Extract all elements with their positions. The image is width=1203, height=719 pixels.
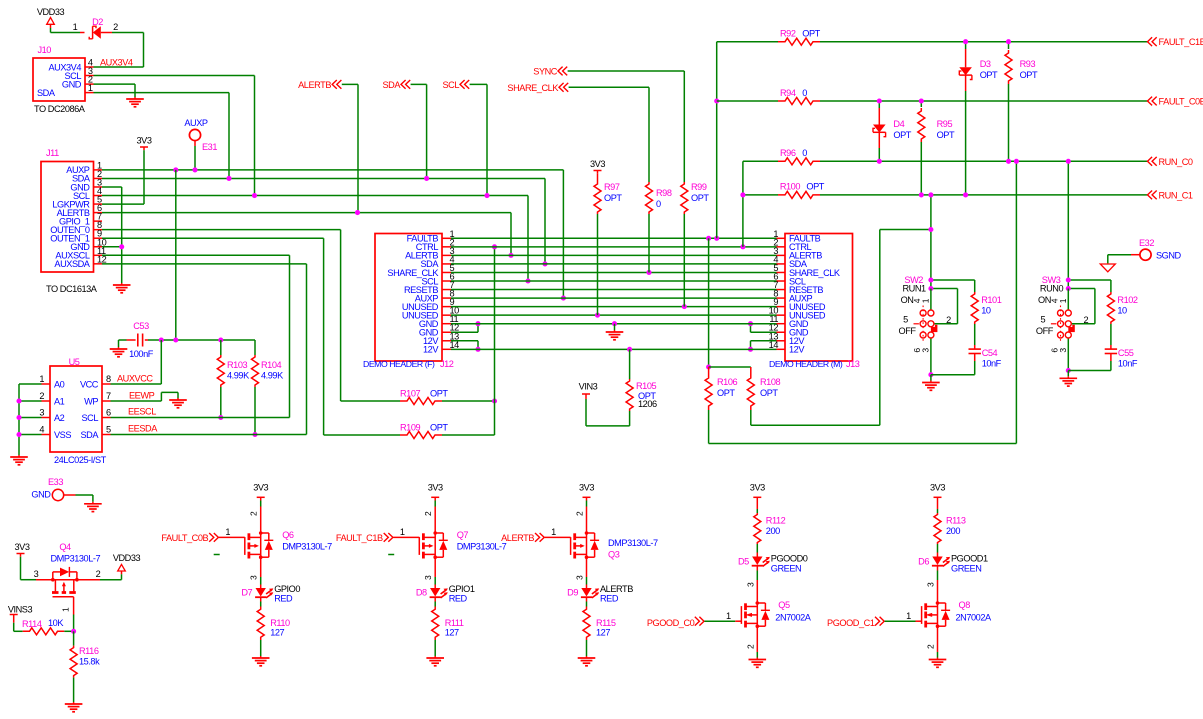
svg-text:OPT: OPT — [937, 130, 955, 140]
wire R92 left vertical to FAULTB — [716, 42, 718, 239]
svg-text:R99: R99 — [691, 182, 707, 192]
svg-text:PGOOD1: PGOOD1 — [951, 554, 988, 564]
svg-text:1: 1 — [921, 298, 931, 303]
svg-text:1: 1 — [61, 607, 71, 612]
wire SYNC to R99 — [568, 70, 685, 72]
ground Q5 — [756, 658, 758, 660]
svg-text:SCL: SCL — [442, 80, 459, 90]
switch SW2 — [920, 310, 926, 316]
resistor R111 — [434, 597, 436, 601]
junction J12 jogs — [475, 321, 480, 326]
wire RUN1 node jogs — [931, 279, 975, 281]
svg-text:SYNC: SYNC — [533, 67, 558, 77]
diode D4 — [878, 101, 880, 108]
wire bus row 7 RESETB — [451, 289, 777, 291]
wire U5 address pins to ground — [19, 383, 42, 385]
junction R93 — [1006, 39, 1011, 44]
svg-text:C53: C53 — [133, 321, 149, 331]
ground J10 — [134, 97, 136, 99]
wire R106 to RUN_C0 — [709, 443, 1017, 445]
ground R116 — [73, 702, 75, 704]
resistor R97 — [597, 174, 599, 182]
svg-text:OFF: OFF — [899, 326, 917, 336]
wire E33 to ground — [64, 494, 76, 496]
svg-text:DMP3130L-7: DMP3130L-7 — [457, 542, 507, 552]
wire SDA row — [102, 177, 545, 179]
wire 3V3 to Q6 — [260, 501, 262, 507]
wire AUXP to C53 node — [175, 170, 177, 340]
svg-text:C55: C55 — [1118, 348, 1134, 358]
svg-text:0: 0 — [656, 199, 661, 209]
svg-text:PGOOD0: PGOOD0 — [771, 554, 808, 564]
ground SGND triangle — [1100, 264, 1115, 272]
resistor R104 — [254, 340, 256, 355]
svg-text:3V3: 3V3 — [137, 136, 152, 146]
wire J10 SDA net — [94, 92, 230, 94]
ground Q8 — [937, 658, 939, 660]
svg-text:Q5: Q5 — [778, 600, 790, 610]
svg-text:VCC: VCC — [80, 379, 99, 389]
resistor R98 — [646, 182, 653, 214]
svg-text:R108: R108 — [760, 377, 781, 387]
svg-text:D6: D6 — [918, 557, 929, 567]
svg-text:SGND: SGND — [1156, 251, 1182, 261]
svg-text:2: 2 — [575, 511, 585, 516]
net flag RUN_C1 — [1148, 191, 1153, 200]
wire EEWP — [111, 400, 162, 402]
wire Q4 drain to VDD33 — [100, 579, 122, 581]
wire AUXVCC — [111, 383, 162, 385]
junction SDA row — [226, 176, 231, 181]
svg-text:OPT: OPT — [691, 193, 709, 203]
resistor R110 — [260, 597, 262, 601]
resistor R109 — [400, 432, 442, 439]
wire J11 GND pins to ground — [102, 186, 122, 188]
resistor R101 — [974, 280, 976, 292]
wire J13 pin13 jog — [751, 340, 777, 342]
wire bus row 10 UNUSED — [451, 314, 777, 316]
svg-text:1206: 1206 — [638, 399, 657, 409]
svg-text:1: 1 — [1058, 298, 1068, 303]
wire R105 to VIN3 — [629, 411, 631, 426]
svg-text:AUXP: AUXP — [184, 118, 208, 128]
junction R104 — [252, 432, 257, 437]
wire Q3 to D9 — [586, 559, 588, 578]
wire J12 pin12 jog — [451, 331, 478, 333]
wire AUXSDA to EESDA — [102, 263, 307, 265]
svg-text:1: 1 — [726, 611, 731, 621]
svg-text:1: 1 — [551, 527, 556, 537]
resistor R94 — [778, 98, 820, 105]
junction U5 address bus — [16, 398, 21, 403]
svg-text:SDA: SDA — [382, 80, 401, 90]
svg-text:D8: D8 — [416, 588, 427, 598]
svg-text:1: 1 — [39, 374, 44, 384]
wire 3V3 to LGKPWR — [143, 150, 145, 204]
svg-text:3: 3 — [249, 575, 259, 580]
wire Q6 to D7 — [260, 559, 262, 578]
resistor R99 — [681, 182, 688, 214]
wire Q5 to ground — [756, 629, 758, 653]
svg-text:J10: J10 — [38, 45, 52, 55]
svg-text:7: 7 — [106, 391, 111, 401]
svg-text:OFF: OFF — [1036, 326, 1054, 336]
svg-text:3V3: 3V3 — [930, 483, 945, 493]
wire RUN_C0 row — [743, 160, 778, 162]
svg-text:R114: R114 — [22, 619, 42, 629]
wire J10 GND to ground — [94, 83, 136, 85]
svg-text:DMP3130L-7: DMP3130L-7 — [51, 554, 101, 564]
svg-text:10: 10 — [981, 306, 991, 316]
led D7 — [256, 588, 266, 597]
svg-text:E31: E31 — [202, 142, 217, 152]
ground U5 — [18, 455, 20, 457]
wire SCL row — [102, 195, 528, 197]
wire C55 to ground — [1110, 361, 1112, 371]
svg-text:5: 5 — [903, 314, 908, 324]
junction SW3 ground — [1066, 368, 1071, 373]
svg-text:2: 2 — [113, 22, 118, 32]
svg-text:4.99K: 4.99K — [227, 371, 250, 381]
svg-text:VINS3: VINS3 — [8, 605, 33, 615]
svg-text:PGOOD_C1: PGOOD_C1 — [827, 618, 875, 628]
svg-text:2: 2 — [96, 569, 101, 579]
svg-text:VDD33: VDD33 — [113, 553, 141, 563]
ic U5 24LC025 — [50, 366, 102, 452]
svg-text:Q7: Q7 — [457, 530, 469, 540]
svg-text:RUN1: RUN1 — [903, 284, 927, 294]
svg-text:RED: RED — [449, 594, 468, 604]
svg-text:TO DC2086A: TO DC2086A — [34, 104, 86, 114]
net flag RUN_C0 — [1148, 157, 1153, 166]
wire D2 to J10 pin4 — [112, 32, 144, 34]
wire RUN_C1 to SW2 — [930, 195, 932, 289]
resistor R105 — [626, 379, 633, 411]
wire bus row 4 SDA — [451, 263, 777, 265]
svg-text:D2: D2 — [92, 17, 103, 27]
wire ALERTB flag to J11 — [342, 83, 358, 85]
svg-text:R112: R112 — [766, 516, 786, 526]
wire FAULT_C1B row — [717, 41, 778, 43]
svg-text:WP: WP — [84, 396, 98, 406]
svg-text:200: 200 — [766, 526, 780, 536]
svg-text:FAULT_C0B: FAULT_C0B — [161, 533, 208, 543]
ground bus GND row — [614, 324, 616, 330]
wire bus row 9 UNUSED — [451, 306, 777, 308]
junction RUN_C0 drop — [1014, 159, 1019, 164]
svg-text:OPT: OPT — [430, 423, 448, 433]
svg-text:R98: R98 — [656, 188, 672, 198]
wire J12 pin13 jog — [451, 340, 478, 342]
wire AUXSCL to EESCL — [102, 254, 290, 256]
wire OUTEN_1 to R109 — [102, 237, 324, 239]
resistor R112 — [756, 501, 758, 510]
wire R108 to SW2 node — [751, 424, 880, 426]
ground E33 — [92, 502, 94, 504]
svg-text:OPT: OPT — [717, 388, 735, 398]
svg-text:GND: GND — [62, 79, 82, 89]
wire C53 node — [148, 339, 255, 341]
svg-text:J11: J11 — [46, 148, 59, 158]
svg-text:2N7002A: 2N7002A — [956, 613, 992, 623]
ground R110 — [260, 656, 262, 658]
wire bus row 3 ALERTB — [451, 254, 777, 256]
wire bus row 14 12V — [451, 348, 777, 350]
svg-text:R102: R102 — [1117, 295, 1138, 305]
svg-text:SHARE_CLK: SHARE_CLK — [507, 83, 559, 93]
svg-text:200: 200 — [946, 526, 960, 536]
wire D3 to RUN_C1 — [965, 91, 967, 195]
svg-text:OPT: OPT — [802, 29, 820, 39]
svg-text:Q8: Q8 — [959, 600, 971, 610]
switch SW3 — [1058, 310, 1064, 316]
svg-text:D9: D9 — [567, 588, 578, 598]
svg-text:RED: RED — [274, 594, 293, 604]
svg-text:R95: R95 — [937, 119, 953, 129]
svg-text:GREEN: GREEN — [771, 564, 801, 574]
svg-text:ALERTB: ALERTB — [600, 584, 633, 594]
svg-text:4.99K: 4.99K — [261, 371, 284, 381]
resistor R116 — [73, 631, 75, 645]
svg-text:3V3: 3V3 — [579, 483, 594, 493]
wire SHARE_CLK to R98 — [569, 86, 649, 88]
wire J13 pin12 jog — [751, 331, 777, 333]
wire C53 to ground — [119, 339, 127, 341]
wire bus row 5 SHARE_CLK — [451, 271, 777, 273]
wire Q7 to D8 — [434, 559, 436, 578]
svg-text:2N7002A: 2N7002A — [775, 613, 811, 623]
svg-text:2: 2 — [1084, 315, 1089, 325]
svg-text:OPT: OPT — [806, 182, 824, 192]
junction bus row1 — [706, 236, 711, 241]
svg-text:GREEN: GREEN — [951, 564, 981, 574]
junction SW2 node — [928, 277, 933, 282]
transistor Q3 DMP3130L-7 — [586, 507, 588, 532]
svg-text:2: 2 — [423, 511, 433, 516]
wire bus row 11 GND — [451, 323, 777, 325]
wire EESCL — [111, 417, 290, 419]
wire R109 to CTRL vertical — [442, 434, 495, 436]
svg-text:TO DC1613A: TO DC1613A — [46, 284, 98, 294]
svg-text:127: 127 — [270, 628, 284, 638]
svg-text:3: 3 — [926, 582, 936, 587]
ground SW3 — [1067, 371, 1069, 377]
svg-text:3V3: 3V3 — [15, 542, 30, 552]
svg-text:R104: R104 — [261, 360, 282, 370]
ground R111 — [434, 656, 436, 658]
wire R96 R100 vertical to CTRL — [742, 161, 744, 247]
svg-text:10: 10 — [1117, 306, 1127, 316]
svg-text:0: 0 — [802, 148, 807, 158]
svg-text:R115: R115 — [596, 618, 616, 628]
svg-text:3: 3 — [39, 408, 44, 418]
wire EESDA — [111, 434, 307, 436]
wire bus row 2 CTRL — [451, 246, 777, 248]
svg-text:EESDA: EESDA — [128, 424, 158, 434]
svg-text:24LC025-I/ST: 24LC025-I/ST — [54, 455, 107, 465]
svg-text:8: 8 — [106, 374, 111, 384]
svg-text:12V: 12V — [423, 345, 439, 355]
svg-text:3: 3 — [921, 348, 931, 353]
junction bus row5 — [646, 270, 651, 275]
svg-text:AUXSDA: AUXSDA — [54, 259, 90, 269]
svg-text:E33: E33 — [48, 477, 63, 487]
wire FAULT_C0B row — [717, 100, 778, 102]
resistor R102 — [1110, 280, 1112, 292]
svg-text:3V3: 3V3 — [428, 483, 443, 493]
svg-text:AUX3V4: AUX3V4 — [100, 58, 133, 68]
svg-text:R111: R111 — [445, 618, 464, 628]
svg-text:OPT: OPT — [604, 193, 622, 203]
svg-text:FAULT_C1B: FAULT_C1B — [336, 533, 383, 543]
wire 12V row to R105 — [629, 349, 631, 379]
svg-text:Q4: Q4 — [59, 542, 71, 552]
transistor Q6 DMP3130L-7 — [260, 507, 262, 532]
svg-text:OPT: OPT — [760, 388, 778, 398]
wire bus row 6 SCL — [451, 280, 777, 282]
ground SW2 — [930, 375, 932, 381]
svg-text:OPT: OPT — [1020, 70, 1038, 80]
wire FAULTB to R106 node — [708, 238, 710, 367]
junction J11 GND — [119, 244, 124, 249]
svg-text:1: 1 — [88, 83, 93, 93]
wire 3V3 to Q7 — [434, 501, 436, 507]
junction bus row14 — [627, 347, 632, 352]
svg-text:100nF: 100nF — [129, 349, 154, 359]
svg-text:2: 2 — [249, 511, 259, 516]
svg-text:10nF: 10nF — [982, 359, 1002, 369]
junction R114 node — [71, 629, 76, 634]
junction R106 node — [706, 364, 711, 369]
resistor R96 — [778, 158, 820, 165]
svg-text:2: 2 — [745, 644, 755, 649]
svg-text:AUXVCC: AUXVCC — [117, 374, 153, 384]
wire VINS3 to R114 — [13, 623, 15, 632]
junction SW2 column — [928, 192, 933, 197]
junction bus row2 — [740, 244, 745, 249]
svg-text:127: 127 — [445, 628, 459, 638]
junction SW3 node — [1066, 277, 1071, 282]
svg-text:RUN_C1: RUN_C1 — [1159, 190, 1193, 200]
svg-text:10K: 10K — [48, 618, 64, 628]
wire R114 to node — [64, 630, 73, 632]
transistor Q8 2N7002A — [937, 602, 939, 629]
svg-text:R97: R97 — [604, 182, 620, 192]
svg-text:5: 5 — [1041, 314, 1046, 324]
svg-text:Q3: Q3 — [608, 550, 620, 560]
junction SW3 column — [1066, 159, 1071, 164]
ground J11 — [121, 283, 123, 285]
resistor R95 — [920, 101, 922, 107]
wire Q8 to ground — [937, 629, 939, 653]
wire SW3 pin3 to ground — [1067, 338, 1069, 371]
wire OUTEN_0 to R107 — [102, 229, 341, 231]
resistor R103 — [220, 340, 222, 355]
led D8 — [430, 588, 440, 597]
resistor R114 — [23, 628, 65, 635]
transistor Q5 2N7002A — [756, 602, 758, 629]
junction D3 — [963, 39, 968, 44]
svg-text:D4: D4 — [893, 119, 904, 129]
junction R107 — [492, 398, 497, 403]
wire ALERTB row — [102, 212, 511, 214]
svg-text:R116: R116 — [79, 646, 99, 656]
net flag FAULT_C0B — [1148, 97, 1153, 106]
svg-text:J12: J12 — [440, 359, 454, 369]
svg-text:R109: R109 — [400, 423, 421, 433]
svg-text:1: 1 — [225, 527, 230, 537]
wire stub Q6 — [214, 554, 220, 556]
wire Q4 gate to R114 node — [73, 615, 75, 632]
svg-text:SCL: SCL — [81, 413, 98, 423]
svg-text:4: 4 — [39, 425, 44, 435]
wire SW2 pin1 — [930, 289, 932, 311]
svg-text:1: 1 — [906, 611, 911, 621]
svg-text:ALERTB: ALERTB — [501, 533, 534, 543]
wire SCL flag to J11 — [470, 83, 487, 85]
svg-text:E32: E32 — [1139, 238, 1154, 248]
svg-text:A1: A1 — [54, 396, 65, 406]
junction R103 — [218, 415, 223, 420]
wire bus row 1 FAULTB — [451, 237, 777, 239]
ground C53 — [118, 347, 120, 349]
svg-text:SDA: SDA — [80, 430, 99, 440]
svg-text:0: 0 — [802, 88, 807, 98]
wire bus row 8 AUXP — [451, 297, 777, 299]
svg-text:3V3: 3V3 — [590, 159, 605, 169]
junction bus row9 — [682, 304, 687, 309]
svg-text:OPT: OPT — [893, 130, 911, 140]
resistor R115 — [586, 597, 588, 601]
wire stub Q7 — [388, 554, 394, 556]
svg-text:3: 3 — [575, 575, 585, 580]
svg-text:GPIO0: GPIO0 — [274, 584, 300, 594]
wire SW2 pin3 to ground — [930, 338, 932, 375]
svg-text:3: 3 — [34, 569, 39, 579]
led D5 — [756, 544, 758, 553]
svg-text:6: 6 — [106, 408, 111, 418]
svg-text:1: 1 — [400, 527, 405, 537]
transistor Q7 DMP3130L-7 — [434, 507, 436, 532]
svg-text:3: 3 — [423, 575, 433, 580]
svg-text:R113: R113 — [946, 516, 966, 526]
junction R94 tap — [714, 98, 719, 103]
svg-text:OPT: OPT — [980, 70, 998, 80]
junction C53 node — [173, 337, 178, 342]
svg-text:15.8k: 15.8k — [79, 657, 100, 667]
wire D6 to Q8 — [937, 566, 939, 571]
svg-text:VDD33: VDD33 — [37, 7, 65, 17]
svg-text:EEWP: EEWP — [129, 391, 155, 401]
svg-text:RUN0: RUN0 — [1040, 284, 1064, 294]
svg-text:U5: U5 — [69, 357, 80, 367]
svg-text:DMP3130L-7: DMP3130L-7 — [282, 542, 332, 552]
capacitor C54 — [974, 345, 976, 349]
svg-text:A2: A2 — [54, 413, 65, 423]
wire E31 to AUXP — [194, 141, 196, 146]
svg-text:3: 3 — [1058, 348, 1068, 353]
wire R107 to CTRL — [442, 400, 495, 402]
svg-text:RUN_C0: RUN_C0 — [1159, 157, 1193, 167]
svg-text:VSS: VSS — [54, 430, 71, 440]
junction bus row10 — [595, 313, 600, 318]
connector J13 — [785, 234, 853, 362]
connector J11 — [41, 162, 94, 273]
svg-text:3V3: 3V3 — [750, 483, 765, 493]
svg-text:2: 2 — [926, 644, 936, 649]
wire RUN0 node jogs — [1068, 279, 1111, 281]
junction J13 jogs — [748, 321, 753, 326]
